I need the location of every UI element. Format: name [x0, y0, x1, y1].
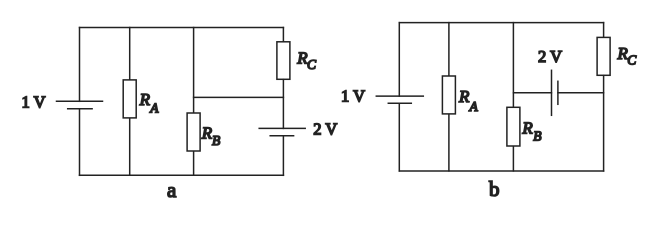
wire bottom edge (b) — [399, 170, 603, 172]
svg-text:2 V: 2 V — [313, 119, 337, 138]
wire middle horizontal right of battery (b) — [558, 92, 604, 94]
label RB (a) — [201, 123, 220, 148]
battery 2 V (b) long plate — [551, 70, 553, 115]
svg-text:R: R — [139, 90, 151, 109]
battery 2 V (a) long plate — [259, 127, 305, 129]
svg-text:b: b — [489, 177, 500, 201]
wire left edge lower (b) — [398, 103, 400, 171]
wire right edge top segment (a) — [282, 28, 284, 42]
svg-text:R: R — [201, 123, 213, 142]
label RA (b) — [458, 87, 479, 114]
wire right edge top segment (b) — [603, 23, 605, 38]
svg-text:R: R — [458, 87, 470, 106]
wire RB branch (b) — [512, 23, 514, 171]
wire top edge (b) — [399, 22, 603, 24]
svg-text:R: R — [521, 119, 533, 138]
wire RA branch (b) — [448, 23, 450, 171]
label RB (b) — [521, 119, 541, 144]
resistor RB (b) — [507, 107, 520, 146]
svg-text:a: a — [167, 178, 177, 202]
wire right edge bottom segment (a) — [282, 136, 284, 176]
wire left edge upper (a) — [79, 28, 81, 102]
resistor RB (a) — [187, 113, 200, 151]
battery 1 V (b) long plate — [376, 95, 423, 97]
wire middle horizontal (a) node between RB branch and right edge — [194, 96, 284, 98]
battery 2 V (b) short plate — [557, 81, 559, 104]
wire top edge (a) — [80, 27, 284, 29]
wire middle horizontal left of battery (b) — [513, 92, 551, 94]
svg-text:2 V: 2 V — [538, 47, 562, 66]
svg-text:B: B — [533, 129, 541, 144]
resistor RA (a) — [123, 80, 136, 118]
label RC (a) — [296, 49, 317, 73]
wire right edge middle segment (a) — [282, 79, 284, 128]
label RC (b) — [617, 44, 638, 68]
svg-text:A: A — [469, 99, 479, 114]
resistor RA (b) — [442, 76, 455, 114]
svg-text:1 V: 1 V — [22, 93, 46, 112]
wire RB branch (a) — [193, 28, 195, 176]
battery 1 V (a) long plate — [57, 100, 103, 102]
wire left edge lower (a) — [79, 109, 81, 176]
svg-text:B: B — [212, 133, 220, 148]
svg-text:1 V: 1 V — [341, 87, 365, 106]
resistor RC (b) — [597, 37, 610, 75]
battery 1 V (b) short plate — [388, 102, 411, 104]
battery 1 V (a) short plate — [68, 108, 92, 110]
svg-text:A: A — [149, 101, 159, 116]
svg-text:C: C — [627, 53, 637, 68]
resistor RC (a) — [277, 42, 290, 80]
wire right edge lower segment (b) — [603, 75, 605, 171]
wire RA branch (a) — [129, 28, 131, 176]
wire left edge upper (b) — [398, 23, 400, 97]
battery 2 V (a) short plate — [270, 135, 293, 137]
wire bottom edge (a) — [80, 174, 284, 176]
svg-text:C: C — [307, 57, 317, 72]
label RA (a) — [139, 90, 160, 115]
